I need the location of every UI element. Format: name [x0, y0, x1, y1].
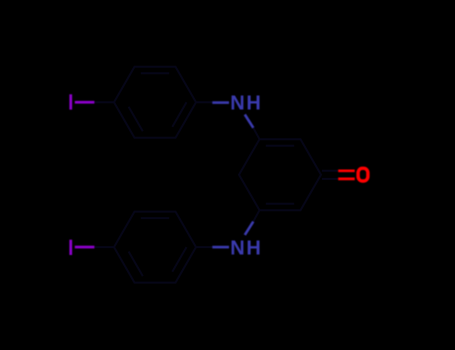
central cyclohexadienone ring: [239, 139, 321, 210]
bond C=O carbon halves: [322, 171, 338, 179]
amine N1 half-bond diagonal: [245, 115, 254, 128]
amine N1 half-bond horizontal: [212, 101, 229, 104]
aromatic inner lines ring bottom-left: [129, 218, 187, 276]
svg-text:NH: NH: [230, 238, 263, 260]
bond C-N top carbon half: [196, 101, 212, 103]
ketone C=O double bond oxygen halves: [338, 171, 355, 179]
oxygen O label: [358, 168, 368, 181]
benzene ring top-left (4-iodophenyl): [114, 67, 196, 138]
aromatic inner lines ring top-left: [129, 73, 187, 131]
iodine I1 half-bond: [75, 101, 95, 104]
bond C-I bottom carbon half: [94, 246, 114, 248]
bond C-N bottom carbon half: [196, 246, 212, 248]
bond C-I top carbon half: [94, 101, 114, 103]
svg-text:NH: NH: [230, 93, 263, 115]
amine N2 half-bond horizontal: [212, 246, 229, 249]
amine N2 half-bond diagonal: [245, 222, 254, 235]
iodine I2 half-bond: [75, 246, 95, 249]
iodine I1 label: [69, 94, 72, 109]
iodine I2 label: [69, 240, 72, 255]
bond N-C ring top carbon half: [253, 128, 259, 140]
benzene ring bottom-left (4-iodophenyl): [114, 212, 196, 283]
bond N-C ring bottom carbon half: [253, 210, 259, 222]
inner double bond lines central ring: [266, 146, 294, 204]
